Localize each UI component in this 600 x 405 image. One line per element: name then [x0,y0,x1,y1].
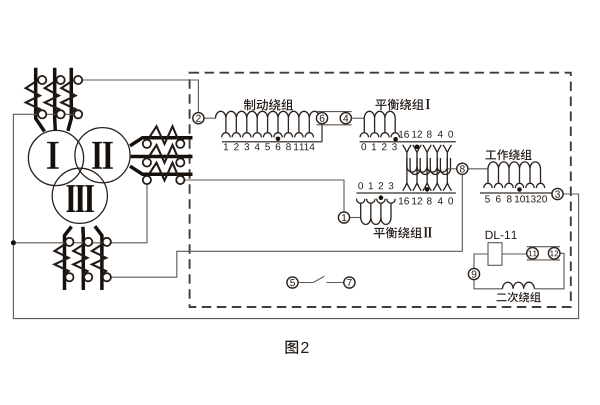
braking winding coil [216,111,320,118]
node 3 [552,188,563,199]
node 12 [548,248,560,260]
wire: node 9 down to secondary coil [474,280,503,289]
wire: node 4 to balance coil I [352,117,365,119]
wire: bar to node 6 [321,124,323,142]
working winding tap bar [480,192,552,194]
balance winding II label 平衡绕组II [374,227,432,238]
connector lines between node 11 and node 12 [527,247,560,260]
balance winding II taps [357,199,396,218]
DL-11 label [486,231,517,239]
wire: secondary coil right up to node 12 [534,253,564,288]
balance winding I taps [360,118,399,137]
balance winding I coil [364,111,395,118]
transformer winding circle I [28,130,83,185]
switch blade [299,276,344,282]
label 16 12 8 4 0 above bar [399,131,409,138]
wire: node 2 to braking coil [204,117,215,119]
vertical winding polarity dots [415,145,420,150]
transformer winding circle III [52,168,107,223]
working winding polarity dot [517,187,522,192]
node 5 [287,277,298,288]
working winding tap numbers [485,196,490,203]
caption 图2 [285,341,298,354]
wire: junction branch through winding III top terminals up to winding II lower terminal [13,184,147,243]
node 8 [457,163,468,174]
transformer winding circle II [75,128,130,183]
node 4 [340,113,351,124]
balance winding I tap numbers 0 1 2 3 [361,143,366,150]
vertical tapped winding: vertical conductors [407,153,447,183]
vertical tapped winding: bottom fork taps [403,183,452,191]
wire: node 8 to working coil [468,168,488,170]
secondary winding label 二次绕组 [497,292,541,303]
balance winding II / vertical winding bottom bar [356,192,455,194]
winding III leads (3 vertical thick lines) [65,226,102,290]
winding III zigzag symbols [55,245,69,275]
braking winding label 制动绕组 [244,99,293,111]
winding II zigzag symbols [149,126,184,144]
winding I leads (3 vertical thick lines) [36,68,72,132]
wire: top terminal to node 2 [82,80,199,112]
wire: node 8 down and left to winding III bottom terminal [111,175,463,278]
node 1 [338,212,349,223]
balance winding I polarity dot [393,137,398,142]
node 6 [316,113,327,124]
secondary winding coil 二次绕组 [503,282,535,289]
wire: vertical winding to node 8 [448,168,457,170]
dashed boundary box [190,73,571,307]
balance winding II polarity dot [379,195,384,200]
wire: relay left to node 9 [474,254,488,268]
wire: winding II terminal to node 1 [184,180,344,212]
vertical tapped winding: top fork taps [403,145,452,153]
node 2 [193,113,204,124]
braking winding tap bar [222,141,322,143]
braking winding tap numbers [224,143,228,150]
working winding label 工作绕组 [485,149,531,160]
junction node dot [11,240,16,245]
winding I zigzag symbols [26,82,40,113]
wire: node 1 to balance coil II [350,217,361,219]
balance winding II coil [361,218,391,225]
balance winding I label 平衡绕组I [376,99,431,110]
vertical tapped winding: U loops [407,158,451,175]
braking winding polarity dot [276,137,281,142]
DL-11 relay coil rectangle [488,243,502,266]
node 9 [468,268,479,279]
wire: left bus / bottom bus / right riser to node 3 [13,114,578,318]
label 16 12 8 4 0 below bottom bar [399,197,409,204]
braking winding taps [222,118,314,137]
wire: relay right to node 11 [502,253,527,255]
node 7 [344,277,355,288]
winding terminal circles [38,76,46,84]
balance winding II tap numbers 0 1 2 3 [358,182,363,189]
node 11 [527,248,539,260]
working winding taps [484,169,545,188]
working winding coil [488,162,541,169]
balance winding I / vertical winding top bar [360,141,456,143]
connector lines between node 6 and node 4 [316,112,351,125]
winding II leads (3 horizontal thick lines) [130,138,193,174]
